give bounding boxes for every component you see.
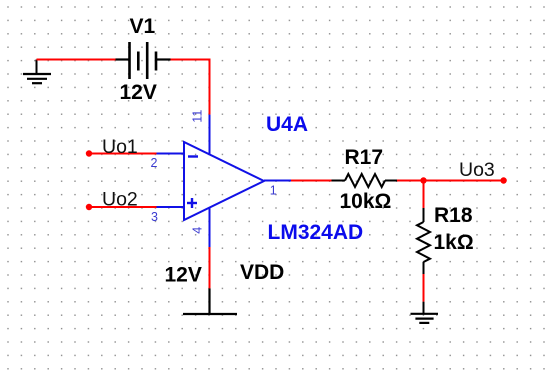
svg-text:12V: 12V: [120, 81, 157, 104]
junction: [420, 177, 426, 183]
svg-text:Uo3: Uo3: [459, 159, 495, 181]
pin 11: [209, 115, 211, 155]
ground GND2: [411, 302, 439, 323]
svg-text:3: 3: [151, 210, 158, 224]
svg-text:V1: V1: [130, 15, 156, 38]
svg-text:10kΩ: 10kΩ: [340, 190, 392, 213]
svg-text:Uo2: Uo2: [102, 189, 138, 211]
wire pin 1 to R17: [291, 180, 332, 182]
battery V1: [116, 42, 171, 79]
node Uo3: [500, 177, 506, 183]
pin 2: [157, 153, 185, 155]
pin 4: [209, 208, 211, 248]
wire R17 to Uo3: [397, 180, 504, 182]
svg-text:4: 4: [191, 227, 205, 234]
resistor R18: [417, 208, 430, 274]
svg-text:U4A: U4A: [266, 113, 308, 136]
wire pin 4 to VDD: [209, 247, 211, 288]
resistor R17: [332, 174, 398, 187]
wire Uo2 to pin 3: [89, 206, 157, 208]
wire Uo1 to pin 2: [89, 153, 157, 155]
wire R18 to ground: [423, 274, 425, 302]
svg-text:11: 11: [191, 110, 205, 123]
ground GND1: [23, 60, 51, 84]
power VDD: [183, 288, 237, 314]
svg-text:12V: 12V: [165, 264, 202, 287]
node Uo1: [86, 150, 92, 156]
svg-text:1: 1: [270, 184, 277, 198]
svg-text:2: 2: [151, 156, 158, 170]
svg-text:1kΩ: 1kΩ: [434, 231, 474, 254]
wire junction to R18: [423, 181, 425, 209]
wire ground to battery: [37, 59, 116, 61]
svg-text:Uo1: Uo1: [102, 136, 138, 158]
wire battery to pin 11: [171, 60, 210, 115]
pin 1: [264, 180, 291, 182]
node Uo2: [86, 204, 92, 210]
svg-text:LM324AD: LM324AD: [268, 221, 364, 244]
svg-text:R17: R17: [345, 146, 384, 169]
op-amp U4A: [184, 142, 264, 220]
pin 3: [157, 206, 185, 208]
svg-text:R18: R18: [434, 204, 473, 227]
svg-text:VDD: VDD: [240, 261, 284, 284]
